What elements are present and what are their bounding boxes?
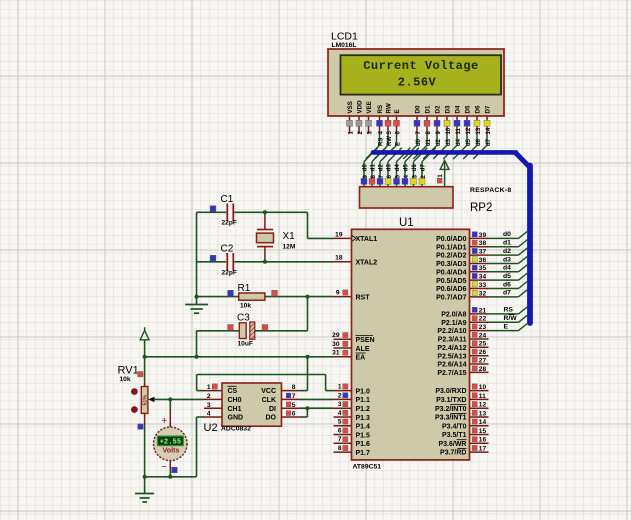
resistor R1 bbox=[239, 293, 265, 300]
svg-text:P3.3/INT1: P3.3/INT1 bbox=[435, 415, 467, 422]
svg-text:P3.1/TXD: P3.1/TXD bbox=[436, 397, 466, 404]
ADC U2 ADC0832 body bbox=[222, 383, 282, 426]
U1 pin 33 P0.6/AD6 bbox=[470, 288, 489, 290]
svg-text:17: 17 bbox=[479, 446, 487, 453]
svg-text:32: 32 bbox=[479, 290, 487, 297]
wire bus to RP2 pin 5 (net d4) bbox=[397, 148, 411, 162]
U1 pin 38 P0.1/AD1 bbox=[470, 246, 489, 248]
U1 pin 32 P0.7/AD7 bbox=[470, 296, 489, 298]
wire bus to RP2 pin 7 (net d2) bbox=[380, 148, 394, 162]
C3 state squares bbox=[228, 325, 234, 331]
svg-text:21: 21 bbox=[479, 307, 487, 314]
svg-text:23: 23 bbox=[479, 324, 487, 331]
wire net d2 to bus bbox=[489, 254, 519, 256]
U2 pin 6 DO bbox=[282, 416, 300, 418]
RV1 wiper arrow bbox=[148, 397, 154, 402]
svg-text:P0.2/AD2: P0.2/AD2 bbox=[436, 253, 466, 260]
svg-text:22: 22 bbox=[479, 316, 487, 323]
wire voltmeter - to ground rail bbox=[169, 470, 171, 477]
wire net d0 to bus bbox=[489, 237, 519, 239]
svg-text:D0: D0 bbox=[415, 105, 422, 113]
svg-text:Current Voltage: Current Voltage bbox=[363, 59, 479, 73]
U1 pin 36 P0.3/AD3 bbox=[470, 262, 489, 264]
svg-text:P1.3: P1.3 bbox=[356, 415, 371, 422]
svg-text:E: E bbox=[504, 323, 509, 330]
svg-text:RS: RS bbox=[377, 105, 384, 114]
svg-text:P0.7/AD7: P0.7/AD7 bbox=[436, 294, 466, 301]
svg-text:C1: C1 bbox=[221, 194, 234, 205]
svg-text:VDD: VDD bbox=[357, 100, 364, 114]
wire bus to RP2 pin 8 (net d1) bbox=[372, 148, 386, 162]
svg-text:16: 16 bbox=[479, 437, 487, 444]
capacitor C3 (electrolytic) bbox=[239, 323, 246, 339]
U1 pin 34 P0.5/AD5 bbox=[470, 279, 489, 281]
U1 pin 16 P3.6/WR bbox=[470, 442, 489, 444]
svg-text:6: 6 bbox=[292, 411, 296, 418]
U1 pin 29 PSEN bbox=[334, 338, 352, 340]
svg-text:d2: d2 bbox=[503, 248, 511, 255]
svg-text:P1.0: P1.0 bbox=[356, 388, 371, 395]
svg-text:D6: D6 bbox=[475, 105, 482, 113]
svg-text:d3: d3 bbox=[387, 164, 393, 172]
svg-text:R1: R1 bbox=[238, 283, 251, 294]
wire U2 DO join DI net bbox=[300, 416, 308, 418]
U1 pin 24 P2.3/A11 bbox=[470, 338, 489, 340]
wire LCD E to bus bbox=[396, 134, 398, 145]
svg-text:3: 3 bbox=[338, 401, 342, 408]
svg-text:RS: RS bbox=[504, 307, 514, 314]
svg-text:CLK: CLK bbox=[262, 397, 276, 404]
svg-text:7: 7 bbox=[338, 436, 342, 443]
svg-text:7: 7 bbox=[292, 393, 296, 400]
U1 pin 1 P1.0 bbox=[334, 390, 352, 392]
junction +5V/U2 VCC bbox=[306, 355, 310, 359]
svg-text:U2: U2 bbox=[204, 422, 218, 434]
U1 pin 4 P1.3 bbox=[334, 416, 352, 418]
wire LCD D5 to bus bbox=[466, 134, 468, 145]
U1 pin 22 P2.1/A9 bbox=[470, 321, 489, 323]
U1 pin 27 P2.6/A14 bbox=[470, 363, 489, 365]
svg-text:d3: d3 bbox=[503, 256, 511, 263]
U2 pin 7 CLK bbox=[282, 398, 300, 400]
RV1 terminal dots bbox=[132, 389, 138, 395]
svg-text:P2.1/A9: P2.1/A9 bbox=[441, 320, 466, 327]
svg-text:29: 29 bbox=[332, 332, 340, 339]
svg-text:P1.6: P1.6 bbox=[356, 441, 371, 448]
svg-text:38: 38 bbox=[479, 240, 487, 247]
wire LCD RW to bus bbox=[387, 134, 389, 145]
svg-text:XTAL2: XTAL2 bbox=[356, 260, 378, 267]
voltmeter + pin bbox=[169, 413, 171, 428]
potentiometer RV1 body bbox=[144, 382, 146, 387]
svg-text:35: 35 bbox=[479, 265, 487, 272]
C2 state square bbox=[210, 255, 216, 261]
svg-text:31: 31 bbox=[332, 350, 340, 357]
svg-text:D2: D2 bbox=[435, 105, 442, 113]
svg-text:d6: d6 bbox=[476, 138, 482, 146]
U1 pin 13 P3.3/INT1 bbox=[470, 416, 489, 418]
wire bus to RP2 pin 6 (net d3) bbox=[388, 148, 402, 162]
svg-text:d6: d6 bbox=[503, 281, 511, 288]
U1 pin 5 P1.4 bbox=[334, 425, 352, 427]
svg-text:D7: D7 bbox=[485, 105, 492, 113]
svg-text:P2.2/A10: P2.2/A10 bbox=[437, 328, 466, 335]
bus horizontal segment bbox=[373, 150, 516, 155]
wire R1 left to ground bbox=[197, 296, 239, 298]
svg-text:15: 15 bbox=[479, 428, 487, 435]
svg-text:51%: 51% bbox=[142, 395, 148, 406]
svg-text:VSS: VSS bbox=[347, 101, 354, 113]
svg-text:d0: d0 bbox=[503, 231, 511, 238]
svg-text:d2: d2 bbox=[379, 164, 385, 172]
wire bottom ground rail bbox=[145, 476, 197, 478]
svg-text:P0.0/AD0: P0.0/AD0 bbox=[436, 236, 466, 243]
svg-text:d1: d1 bbox=[426, 138, 432, 146]
svg-text:d5: d5 bbox=[466, 138, 472, 146]
junction +5V/RV1 bbox=[143, 355, 147, 359]
svg-text:28: 28 bbox=[479, 366, 487, 373]
wire LCD D1 to bus bbox=[426, 134, 428, 145]
junction wiper/voltmeter bbox=[168, 397, 172, 401]
svg-text:EA: EA bbox=[356, 355, 366, 362]
U1 pin 25 P2.4/A12 bbox=[470, 346, 489, 348]
svg-text:+: + bbox=[161, 416, 167, 427]
U2 pin 5 DI bbox=[282, 407, 300, 409]
svg-text:C3: C3 bbox=[237, 313, 250, 324]
svg-text:d7: d7 bbox=[421, 164, 427, 172]
svg-text:P3.7/RD: P3.7/RD bbox=[440, 450, 466, 457]
junction RST/C3 bbox=[306, 295, 310, 299]
svg-text:d0: d0 bbox=[416, 138, 422, 146]
svg-text:CH0: CH0 bbox=[228, 397, 242, 404]
svg-text:P2.7/A15: P2.7/A15 bbox=[437, 370, 466, 377]
svg-text:P0.4/AD4: P0.4/AD4 bbox=[436, 269, 466, 276]
svg-text:AT89C51: AT89C51 bbox=[353, 464, 382, 471]
junction DI/DO bbox=[305, 406, 309, 410]
junction ground rail/RV1 bbox=[143, 475, 147, 479]
svg-text:12M: 12M bbox=[283, 244, 296, 251]
svg-text:24: 24 bbox=[479, 332, 487, 339]
svg-text:P3.5/T1: P3.5/T1 bbox=[442, 432, 467, 439]
svg-text:2: 2 bbox=[338, 392, 342, 399]
wire RP2 pin 1 (common) to +5V bbox=[444, 160, 446, 186]
svg-text:P2.5/A13: P2.5/A13 bbox=[437, 353, 466, 360]
voltmeter digital display +2.55 bbox=[158, 436, 184, 446]
junction C1/X1 bbox=[263, 210, 267, 214]
U1 pin 15 P3.5/T1 bbox=[470, 434, 489, 436]
svg-text:CH1: CH1 bbox=[228, 406, 242, 413]
svg-text:4: 4 bbox=[207, 411, 211, 418]
svg-text:P3.0/RXD: P3.0/RXD bbox=[435, 388, 466, 395]
svg-text:P0.3/AD3: P0.3/AD3 bbox=[436, 261, 466, 268]
svg-text:37: 37 bbox=[479, 249, 487, 256]
svg-text:30: 30 bbox=[332, 341, 340, 348]
wire +5V rail horizontal to EA bbox=[145, 356, 334, 358]
X1 pin bottom bbox=[264, 247, 266, 262]
svg-text:X1: X1 bbox=[283, 231, 296, 242]
svg-text:d1: d1 bbox=[503, 240, 511, 247]
bus corner chamfer bbox=[515, 152, 530, 167]
svg-text:14: 14 bbox=[486, 127, 492, 134]
svg-text:36: 36 bbox=[479, 257, 487, 264]
svg-text:−: − bbox=[161, 462, 167, 473]
svg-text:1: 1 bbox=[338, 384, 342, 391]
svg-text:6: 6 bbox=[338, 427, 342, 434]
svg-text:P1.4: P1.4 bbox=[356, 424, 371, 431]
RP2 resistor pack body bbox=[360, 187, 454, 208]
svg-text:d2: d2 bbox=[436, 138, 442, 146]
wire LCD D2 to bus bbox=[436, 134, 438, 145]
wire LCD D0 to bus bbox=[416, 134, 418, 145]
svg-text:RW: RW bbox=[386, 103, 393, 113]
svg-text:9: 9 bbox=[336, 290, 340, 297]
wire U2 DI to U1 P1.2 bbox=[300, 407, 334, 409]
svg-text:P1.5: P1.5 bbox=[356, 432, 371, 439]
wire net d3 to bus bbox=[489, 262, 519, 264]
U2 pin 3 CH1 bbox=[204, 407, 222, 409]
svg-text:d6: d6 bbox=[412, 164, 418, 172]
wire C1 left to ground rail bbox=[197, 211, 227, 213]
voltmeter body bbox=[154, 427, 188, 461]
wire R1 right to RST bbox=[265, 296, 334, 298]
wire +5V vertical to RV1 bbox=[144, 340, 146, 382]
svg-text:P3.6/WR: P3.6/WR bbox=[438, 441, 466, 448]
svg-text:LCD1: LCD1 bbox=[331, 31, 358, 43]
svg-text:R/W: R/W bbox=[504, 315, 518, 322]
junction ground rail/voltmeter bbox=[168, 475, 172, 479]
wire +5V down to U2 VCC bbox=[307, 357, 309, 391]
svg-text:11: 11 bbox=[479, 393, 486, 400]
svg-text:39: 39 bbox=[479, 232, 487, 239]
svg-text:RP2: RP2 bbox=[470, 202, 492, 214]
svg-text:D4: D4 bbox=[455, 105, 462, 113]
svg-text:Volts: Volts bbox=[162, 446, 179, 455]
svg-text:19: 19 bbox=[335, 231, 343, 238]
svg-text:ADC0832: ADC0832 bbox=[221, 426, 251, 433]
wire U2 GND down to ground rail bbox=[196, 417, 198, 477]
svg-text:22pF: 22pF bbox=[222, 269, 237, 276]
svg-text:10k: 10k bbox=[240, 303, 251, 310]
svg-text:12: 12 bbox=[479, 402, 487, 409]
svg-text:d0: d0 bbox=[363, 164, 369, 172]
U1 pin 19 XTAL1 bbox=[334, 237, 352, 239]
svg-text:RST: RST bbox=[356, 294, 371, 301]
svg-text:CS: CS bbox=[228, 388, 238, 395]
svg-text:E: E bbox=[394, 109, 401, 113]
svg-text:5: 5 bbox=[338, 419, 342, 426]
U1 pin 26 P2.5/A13 bbox=[470, 355, 489, 357]
svg-text:5: 5 bbox=[292, 402, 296, 409]
wire RST junction down to C3 bbox=[307, 297, 309, 331]
RV1 state square top bbox=[138, 372, 143, 377]
wire voltmeter + to wiper net bbox=[169, 399, 171, 413]
U1 pin 31 EA bbox=[334, 356, 352, 358]
junction +5V/C3 bbox=[195, 355, 199, 359]
U1 pin 28 P2.7/A15 bbox=[470, 371, 489, 373]
svg-text:11: 11 bbox=[456, 127, 462, 134]
wire net d5 to bus bbox=[489, 279, 519, 281]
svg-text:P3.2/INT0: P3.2/INT0 bbox=[435, 406, 467, 413]
svg-text:DO: DO bbox=[266, 415, 277, 422]
LCD LM016L body bbox=[328, 49, 504, 116]
bus vertical segment bbox=[527, 166, 533, 324]
microcontroller U1 AT89C51 body bbox=[352, 229, 470, 460]
svg-text:XTAL1: XTAL1 bbox=[356, 236, 378, 243]
svg-text:22pF: 22pF bbox=[222, 220, 237, 227]
svg-text:33: 33 bbox=[479, 282, 487, 289]
wire net RS to bus bbox=[489, 313, 519, 315]
U1 pin 8 P1.7 bbox=[334, 451, 352, 453]
U1 pin 21 P2.0/A8 bbox=[470, 313, 489, 315]
svg-text:P0.1/AD1: P0.1/AD1 bbox=[436, 244, 466, 251]
voltmeter - pin bbox=[169, 461, 171, 470]
wire ground rail vertical C1-C2-R1 bbox=[196, 212, 198, 296]
svg-text:U1: U1 bbox=[399, 217, 414, 229]
svg-text:P0.6/AD6: P0.6/AD6 bbox=[436, 286, 466, 293]
X1 pin top bbox=[264, 212, 266, 229]
U1 pin 11 P3.1/TXD bbox=[470, 398, 489, 400]
U2 pin 8 VCC bbox=[282, 390, 300, 392]
svg-text:13: 13 bbox=[479, 410, 487, 417]
wire net R/W to bus bbox=[489, 321, 519, 323]
svg-text:10k: 10k bbox=[120, 376, 131, 383]
crystal X1 bbox=[257, 229, 273, 231]
svg-text:34: 34 bbox=[479, 274, 487, 281]
wire bus to RP2 pin 3 (net d6) bbox=[414, 148, 428, 162]
wire C2 right to XTAL2 bbox=[234, 261, 333, 263]
U1 pin 30 ALE bbox=[334, 347, 352, 349]
ground symbol bottom bbox=[144, 477, 146, 494]
wire LCD RS to bus bbox=[379, 134, 381, 145]
U1 pin 10 P3.0/RXD bbox=[470, 390, 489, 392]
svg-text:P0.5/AD5: P0.5/AD5 bbox=[436, 278, 466, 285]
U1 pin 9 RST bbox=[334, 296, 352, 298]
U1 pin 35 P0.4/AD4 bbox=[470, 271, 489, 273]
wire C1 right to XTAL1 bbox=[234, 211, 307, 213]
svg-text:RESPACK-8: RESPACK-8 bbox=[470, 187, 511, 194]
svg-text:12: 12 bbox=[466, 127, 472, 134]
wire net d7 to bus bbox=[489, 296, 519, 298]
svg-text:4: 4 bbox=[338, 410, 342, 417]
power +5V symbol above RP2 pin 1 bbox=[440, 160, 449, 169]
svg-text:8: 8 bbox=[292, 384, 296, 391]
wire C3 right to RST riser bbox=[255, 330, 308, 332]
wire U2 CS loop to U1 P1.0 bbox=[197, 390, 204, 392]
svg-text:RW: RW bbox=[387, 136, 393, 146]
svg-text:8: 8 bbox=[338, 445, 342, 452]
svg-text:d7: d7 bbox=[503, 290, 511, 297]
wire RV1 bottom to ground rail bbox=[144, 425, 146, 477]
svg-text:d4: d4 bbox=[503, 265, 511, 272]
RV1 state square bottom bbox=[138, 424, 143, 429]
wire bus to RP2 pin 4 (net d5) bbox=[405, 148, 419, 162]
svg-text:1: 1 bbox=[207, 384, 211, 391]
wire net d4 to bus bbox=[489, 271, 519, 273]
junction C2/X1 bbox=[263, 260, 267, 264]
svg-text:2.56V: 2.56V bbox=[398, 76, 437, 90]
wire RV1 wiper to U2 CH0 bbox=[154, 398, 205, 400]
svg-text:ALE: ALE bbox=[356, 346, 370, 353]
wire C3 left to +5V rail bbox=[197, 330, 240, 332]
svg-text:VEE: VEE bbox=[366, 101, 373, 113]
wire U2 CLK to U1 P1.1 bbox=[300, 398, 334, 400]
svg-text:P1.1: P1.1 bbox=[356, 397, 371, 404]
svg-text:d5: d5 bbox=[503, 273, 511, 280]
svg-text:DI: DI bbox=[269, 406, 276, 413]
U1 pin 37 P0.2/AD2 bbox=[470, 254, 489, 256]
wire net d1 to bus bbox=[489, 246, 519, 248]
svg-text:VCC: VCC bbox=[261, 388, 276, 395]
ground symbol near C1/C2/R1 bbox=[196, 297, 198, 305]
svg-text:10: 10 bbox=[479, 384, 487, 391]
U1 pin 7 P1.6 bbox=[334, 442, 352, 444]
junction R1/ground bbox=[195, 295, 199, 299]
wire LCD D3 to bus bbox=[446, 134, 448, 145]
voltmeter - state square bbox=[172, 467, 178, 473]
svg-text:13: 13 bbox=[476, 127, 482, 134]
U1 pin 6 P1.5 bbox=[334, 434, 352, 436]
svg-text:26: 26 bbox=[479, 349, 487, 356]
svg-text:14: 14 bbox=[479, 419, 487, 426]
svg-text:P2.0/A8: P2.0/A8 bbox=[441, 312, 466, 319]
svg-text:18: 18 bbox=[335, 255, 343, 262]
svg-text:10: 10 bbox=[446, 127, 452, 134]
wire C2 left to ground rail bbox=[197, 261, 227, 263]
wire net E to bus bbox=[489, 330, 519, 332]
U2 pin 1 CS bbox=[204, 390, 222, 392]
svg-text:27: 27 bbox=[479, 357, 487, 364]
svg-text:P1.2: P1.2 bbox=[356, 406, 371, 413]
svg-text:GND: GND bbox=[228, 415, 244, 422]
svg-text:10uF: 10uF bbox=[238, 341, 253, 348]
U1 pin 39 P0.0/AD0 bbox=[470, 237, 489, 239]
wire LCD D6 to bus bbox=[476, 134, 478, 145]
svg-text:RV1: RV1 bbox=[118, 365, 139, 377]
wire net d6 to bus bbox=[489, 288, 519, 290]
U1 pin 3 P1.2 bbox=[334, 407, 352, 409]
RV1 pin bottom bbox=[144, 413, 146, 425]
U1 pin 2 P1.1 bbox=[334, 398, 352, 400]
wire LCD D7 to bus bbox=[486, 134, 488, 145]
svg-text:P2.6/A14: P2.6/A14 bbox=[437, 362, 466, 369]
svg-text:d3: d3 bbox=[446, 138, 452, 146]
power +5V symbol left bbox=[144, 327, 146, 330]
U1 pin 12 P3.2/INT0 bbox=[470, 407, 489, 409]
svg-text:25: 25 bbox=[479, 341, 487, 348]
svg-text:RS: RS bbox=[378, 138, 384, 146]
svg-text:P3.4/T0: P3.4/T0 bbox=[442, 423, 467, 430]
LCD green screen bbox=[341, 55, 502, 94]
svg-text:P2.3/A11: P2.3/A11 bbox=[438, 337, 467, 344]
svg-text:D1: D1 bbox=[425, 105, 432, 113]
U1 pin 17 P3.7/RD bbox=[470, 451, 489, 453]
svg-text:d5: d5 bbox=[404, 164, 410, 172]
U1 pin 14 P3.4/T0 bbox=[470, 425, 489, 427]
U2 pin 4 GND bbox=[204, 416, 222, 418]
svg-text:C2: C2 bbox=[221, 244, 234, 255]
svg-text:PSEN: PSEN bbox=[356, 337, 375, 344]
svg-text:P2.4/A12: P2.4/A12 bbox=[437, 345, 466, 352]
capacitor C1 bbox=[226, 204, 228, 222]
svg-text:2: 2 bbox=[207, 393, 211, 400]
wire LCD D4 to bus bbox=[456, 134, 458, 145]
svg-text:P1.7: P1.7 bbox=[356, 450, 371, 457]
svg-text:3: 3 bbox=[207, 402, 211, 409]
wire bus to RP2 pin 2 (net d7) bbox=[422, 148, 436, 162]
svg-text:D5: D5 bbox=[465, 105, 472, 113]
svg-text:D3: D3 bbox=[445, 105, 452, 113]
svg-text:d7: d7 bbox=[486, 138, 492, 146]
